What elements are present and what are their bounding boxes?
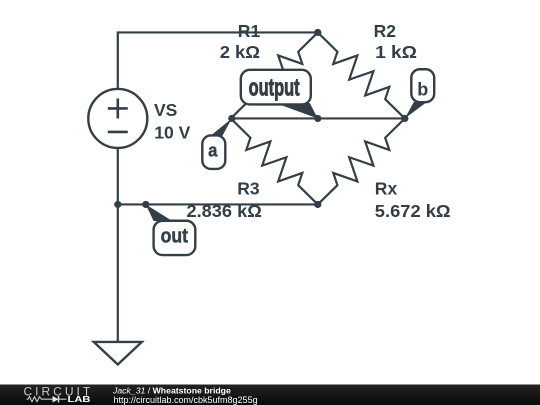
svg-text:10 V: 10 V [154, 122, 190, 142]
svg-text:http://circuitlab.com/cbk5ufm8: http://circuitlab.com/cbk5ufm8g255g [114, 395, 258, 405]
svg-text:R2: R2 [374, 21, 397, 41]
svg-text:output: output [249, 74, 300, 101]
resistor R1 [231, 32, 318, 118]
wire bottom horizontal [118, 203, 318, 205]
svg-text:R1: R1 [238, 21, 261, 41]
node top junction [314, 29, 321, 36]
node junction left [114, 201, 121, 208]
svg-text:b: b [417, 79, 428, 99]
svg-text:2 kΩ: 2 kΩ [220, 42, 260, 62]
node output callout wedge [275, 103, 318, 119]
svg-text:a: a [208, 140, 217, 161]
resistor R2 [318, 32, 405, 118]
node a [228, 115, 235, 122]
svg-text:R3: R3 [237, 178, 260, 198]
svg-text:2.836 kΩ: 2.836 kΩ [187, 201, 262, 221]
ground [94, 342, 142, 365]
node b callout wedge [405, 102, 427, 119]
svg-text:Rx: Rx [375, 178, 398, 198]
svg-text:LAB: LAB [68, 395, 91, 404]
node output callout box [241, 70, 311, 105]
node a callout box [202, 135, 225, 169]
node b [401, 115, 408, 122]
voltage source VS [88, 89, 147, 148]
wire middle horizontal a-b [232, 117, 405, 119]
node out callout box [154, 221, 196, 255]
node mid [314, 115, 321, 122]
resistor R3 [231, 118, 318, 204]
node out callout wedge [146, 204, 173, 221]
wire top horizontal [118, 32, 318, 88]
svg-text:5.672 kΩ: 5.672 kΩ [375, 201, 451, 221]
logo diode [53, 396, 59, 403]
svg-text:out: out [161, 225, 189, 248]
resistor Rx [318, 118, 405, 204]
svg-text:1 kΩ: 1 kΩ [375, 42, 417, 62]
node a callout wedge [210, 118, 232, 136]
wire VS bottom [117, 148, 119, 205]
logo resistor squiggle [27, 397, 53, 402]
svg-text:VS: VS [154, 100, 177, 120]
node b callout box [411, 69, 434, 102]
node out anchor [142, 201, 149, 208]
svg-text:Jack_31 / Wheatstone bridge: Jack_31 / Wheatstone bridge [112, 386, 231, 396]
wire to ground [117, 204, 119, 341]
node bottom [314, 201, 321, 208]
